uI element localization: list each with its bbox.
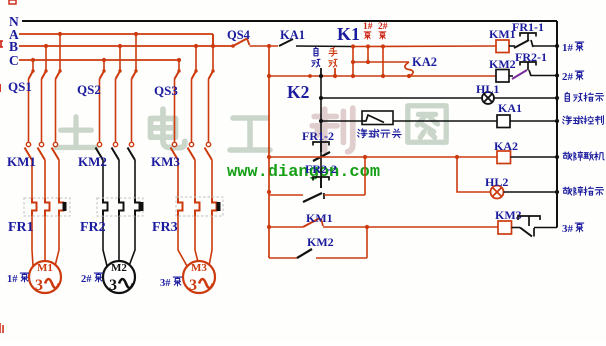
wire QS1 pole1 feeder bbox=[31, 58, 35, 62]
contactor KM3 main pole1 bbox=[172, 142, 176, 146]
wire FR3 to motor pole2 bbox=[195, 216, 199, 266]
svg-text:QS2: QS2 bbox=[77, 82, 101, 97]
wire QS2 to KM2 pole3 bbox=[131, 79, 133, 142]
svg-text:M2: M2 bbox=[111, 262, 127, 274]
wire KM3 to FR3 pole1 bbox=[177, 160, 179, 198]
contactor KM1 main pole3 bbox=[53, 142, 57, 146]
wire auto indicator row bbox=[321, 97, 482, 99]
red mark left mid bbox=[0, 84, 1, 92]
wire FR2-1 to bus bbox=[531, 75, 557, 77]
disconnect switch QS2 pole1 bbox=[102, 69, 105, 72]
junction bus fault interlock bbox=[555, 155, 559, 159]
label auto indicator bbox=[565, 92, 569, 101]
wire QS1 to KM1 pole2 bbox=[41, 79, 43, 142]
thermal contact FR1-1 NC bbox=[520, 33, 536, 37]
wire QS3 to KM3 pole3 bbox=[208, 79, 210, 142]
FR2 trip bar bbox=[140, 202, 144, 211]
contactor KM3 main pole2 bbox=[189, 142, 193, 146]
junction bus 1# pump bbox=[555, 44, 559, 48]
svg-text:K1: K1 bbox=[337, 24, 360, 44]
svg-text:FR1-1: FR1-1 bbox=[512, 20, 544, 34]
thermal relay FR3 heater pole1 bbox=[178, 198, 183, 216]
junction feed KA2 row bbox=[267, 155, 271, 159]
svg-text:KM3: KM3 bbox=[151, 154, 180, 169]
junction bus 2# pump bbox=[555, 73, 559, 77]
svg-text:KM2: KM2 bbox=[489, 57, 516, 71]
svg-text:B: B bbox=[9, 39, 18, 54]
wire QS1 pole2 feeder bbox=[44, 44, 48, 48]
wire KM1 to FR1 pole3 bbox=[58, 160, 60, 198]
coil KM3 bbox=[498, 221, 512, 234]
svg-text:KA2: KA2 bbox=[412, 55, 437, 69]
FR1 trip bar bbox=[63, 202, 67, 211]
svg-text:FR2-1: FR2-1 bbox=[515, 50, 547, 64]
wire KM1 aux to KM3 coil bbox=[323, 226, 498, 228]
wire common rail to KM2 coil bbox=[269, 75, 496, 77]
wire K1 2# stub bbox=[382, 47, 384, 77]
coil KM2 bbox=[496, 70, 509, 83]
junction feed KM1 aux bbox=[267, 225, 271, 229]
svg-text:1#: 1# bbox=[7, 274, 18, 285]
wire FR1-1 to bus bbox=[533, 45, 557, 47]
wire QS2 to KM2 pole1 bbox=[99, 79, 101, 142]
junction HL2 tap bbox=[455, 155, 459, 159]
svg-text:QS3: QS3 bbox=[154, 83, 178, 98]
bus B bbox=[19, 45, 233, 47]
bus N bbox=[22, 20, 557, 22]
thermal relay FR1 box bbox=[24, 198, 70, 216]
svg-text:QS1: QS1 bbox=[8, 79, 32, 94]
wire NC contact to bus bbox=[534, 227, 557, 229]
svg-text:KM1: KM1 bbox=[7, 154, 36, 169]
wire control feed vertical bbox=[268, 46, 270, 258]
junction riser KA2 row bbox=[363, 155, 367, 159]
junction feed rail bbox=[267, 74, 271, 78]
contact FR2-2 blade bbox=[303, 193, 322, 202]
svg-text:1#: 1# bbox=[363, 22, 373, 32]
watermark char gong bbox=[230, 118, 270, 150]
thermal contact FR1-2 NC bbox=[313, 142, 329, 146]
wire KM2 to FR2 pole3 bbox=[134, 160, 136, 198]
svg-text:KM2: KM2 bbox=[78, 154, 107, 169]
red mark left edge bbox=[0, 41, 3, 47]
wire FR1 to motor pole1 bbox=[32, 216, 33, 266]
svg-text:2#: 2# bbox=[378, 22, 388, 32]
wire KM3 to FR3 pole2 bbox=[194, 160, 196, 198]
wire FR2 to motor pole2 bbox=[118, 216, 120, 266]
wire riser to KA2 row bbox=[364, 157, 366, 195]
svg-text:KM2: KM2 bbox=[307, 235, 334, 249]
red mark left bottom bbox=[0, 323, 3, 333]
wire A drop to QS3 bbox=[212, 34, 214, 47]
svg-text:3: 3 bbox=[35, 277, 43, 294]
wire float switch to KA1 coil bbox=[393, 120, 497, 122]
FR3 trip bar bbox=[217, 202, 221, 211]
wire QS2 pole2 feeder bbox=[118, 44, 122, 48]
lamp HL1 bbox=[482, 92, 494, 104]
contactor KM2 main pole2 bbox=[113, 142, 117, 146]
lamp HL2 bbox=[491, 186, 504, 199]
disconnect switch QS3 pole1 bbox=[177, 69, 180, 72]
thermal relay FR1 heater pole2 bbox=[45, 198, 50, 216]
disconnect switch QS1 pole3 bbox=[58, 69, 61, 72]
junction feed fault row bbox=[267, 190, 271, 194]
thermal relay FR2 heater pole2 bbox=[119, 198, 124, 216]
disconnect switch QS3 pole3 bbox=[211, 69, 214, 72]
contactor KM3 main pole3 bbox=[206, 142, 210, 146]
thermal relay FR1 heater pole1 bbox=[32, 198, 37, 216]
relay contact KA2 bbox=[405, 62, 413, 76]
thermal relay FR2 heater pole3 bbox=[135, 198, 140, 216]
wire QS4 to KA1 bbox=[250, 45, 279, 47]
contactor KM1 main pole2 bbox=[39, 142, 43, 146]
svg-text:KM1: KM1 bbox=[306, 211, 333, 225]
bus A bbox=[19, 33, 213, 35]
svg-text:1#: 1# bbox=[562, 42, 574, 54]
wire KM3 coil to NC contact bbox=[512, 227, 521, 229]
relay contact KA1 NO bbox=[279, 39, 293, 46]
wire HL2 to bus bbox=[504, 191, 558, 193]
wire QS1 to KM1 pole1 bbox=[28, 79, 30, 142]
wire K1 rail to KA2 contact bbox=[353, 61, 409, 63]
wire QS3 pole1 feeder bbox=[177, 58, 181, 62]
svg-text:FR1-2: FR1-2 bbox=[302, 129, 334, 143]
svg-text:QS4: QS4 bbox=[227, 28, 251, 42]
wire KA2 coil row bbox=[269, 156, 497, 158]
junction K1 feed bbox=[351, 44, 355, 48]
wire QS3 pole3 feeder bbox=[212, 34, 214, 71]
wire KA1 to K1 bbox=[296, 45, 353, 48]
wire FR1 to motor pole2 bbox=[44, 216, 46, 266]
svg-text:KA1: KA1 bbox=[498, 101, 522, 115]
wire KM3 to FR3 pole3 bbox=[211, 160, 213, 198]
label fault interlock bbox=[563, 152, 572, 160]
coil KA2 bbox=[497, 151, 511, 164]
svg-text:3#: 3# bbox=[160, 278, 171, 289]
wire KM2 to FR2 pole1 bbox=[102, 160, 104, 198]
label float switch bbox=[358, 129, 367, 138]
label auto bbox=[314, 47, 318, 56]
thermal relay FR3 heater pole3 bbox=[212, 198, 217, 216]
junction float chain bbox=[319, 119, 323, 123]
svg-text:HL1: HL1 bbox=[476, 82, 499, 96]
coil KM1 bbox=[496, 40, 509, 53]
thermal relay FR3 box bbox=[176, 197, 223, 216]
thermal contact FR2-2 NC bbox=[313, 177, 329, 181]
svg-text:2#: 2# bbox=[562, 71, 574, 83]
coil KA1 bbox=[497, 115, 510, 128]
junction bus float control bbox=[555, 119, 559, 123]
contactor KM1 main pole1 bbox=[26, 142, 30, 146]
svg-text:3: 3 bbox=[109, 277, 117, 294]
wire HL2 feed bbox=[457, 157, 490, 192]
junction auto chain bbox=[319, 96, 323, 100]
wire K1 common stub bbox=[352, 47, 354, 77]
contactor NC contact after KM3 bbox=[518, 216, 540, 220]
contactor KM1 aux NO contact bbox=[303, 219, 319, 228]
wire HL1 to bus bbox=[494, 97, 557, 99]
junction control feed tap bbox=[267, 44, 271, 48]
svg-text:M3: M3 bbox=[191, 262, 207, 274]
watermark char dian bbox=[151, 109, 185, 147]
svg-text:www.diangon.com: www.diangon.com bbox=[227, 163, 380, 182]
wire QS3 pole2 feeder bbox=[194, 44, 198, 48]
svg-text:2#: 2# bbox=[81, 274, 92, 285]
svg-text:3: 3 bbox=[189, 277, 197, 294]
float switch contact bbox=[362, 115, 384, 123]
wire QS2 pole1 feeder bbox=[102, 58, 106, 62]
contactor KM2 aux NO contact bbox=[297, 249, 312, 258]
watermark char zhi bbox=[312, 108, 353, 152]
svg-text:HL2: HL2 bbox=[485, 175, 508, 189]
thermal relay FR2 heater pole1 bbox=[103, 198, 108, 216]
contactor KM2 main pole3 bbox=[129, 142, 133, 146]
junction KM2 aux riser bbox=[365, 225, 369, 229]
disconnect switch QS1 pole1 bbox=[31, 69, 34, 72]
watermark char tu bbox=[56, 117, 96, 148]
wire QS3 to KM3 pole2 bbox=[191, 79, 193, 142]
wire fault row left bbox=[269, 194, 303, 196]
wire right return bus bbox=[556, 21, 558, 228]
wire KA1 coil to bus bbox=[510, 120, 557, 122]
motor M2 2# pump bbox=[103, 261, 135, 294]
contactor KM2 main pole1 bbox=[97, 142, 101, 146]
motor M3 3# pump bbox=[183, 261, 215, 294]
thermal relay FR2 box bbox=[97, 198, 143, 216]
selector K2 manual contact bbox=[334, 68, 336, 76]
wire interlock chain bbox=[320, 76, 322, 188]
svg-text:FR1: FR1 bbox=[8, 220, 34, 235]
wire FR2 to motor pole3 bbox=[129, 216, 135, 266]
wire FR1 to motor pole3 bbox=[55, 216, 59, 266]
junction A drop crosses bus B bbox=[211, 44, 215, 48]
bus C bbox=[19, 59, 179, 61]
wire QS2 to KM2 pole2 bbox=[115, 79, 117, 142]
label fault indicator bbox=[563, 187, 572, 195]
wire QS1 pole3 feeder bbox=[58, 32, 62, 36]
svg-text:KA2: KA2 bbox=[494, 139, 518, 153]
wire KM1 aux row left bbox=[269, 226, 303, 228]
wire KA2 coil to bus bbox=[511, 156, 558, 158]
wire K1 row to KM1 coil bbox=[353, 45, 496, 48]
wire fault row to riser bbox=[324, 194, 365, 196]
junction bus fault indicator bbox=[555, 190, 559, 194]
wire K1 1# stub bbox=[367, 47, 369, 63]
svg-text:KA1: KA1 bbox=[280, 28, 305, 42]
wire KM1 coil to FR1-1 bbox=[509, 45, 515, 47]
svg-text:FR3: FR3 bbox=[152, 220, 178, 235]
wire KM2 aux row left bbox=[269, 257, 297, 259]
motor M1 1# pump bbox=[29, 261, 61, 294]
wire QS1 to KM1 pole3 bbox=[55, 79, 57, 142]
thermal contact FR2-1 NC bbox=[520, 62, 536, 66]
wire KM1 to FR1 pole2 bbox=[44, 160, 46, 198]
thermal relay FR3 heater pole2 bbox=[195, 198, 200, 216]
wire KM2 to FR2 pole2 bbox=[118, 160, 120, 198]
wire KM2 coil to FR2-1 bbox=[509, 75, 513, 77]
wire FR3 to motor pole1 bbox=[178, 216, 187, 266]
disconnect switch QS1 pole2 bbox=[44, 69, 47, 72]
svg-text:M1: M1 bbox=[37, 262, 53, 274]
svg-text:C: C bbox=[9, 53, 19, 68]
svg-text:FR2: FR2 bbox=[80, 220, 106, 235]
wire KM2 aux riser bbox=[366, 227, 368, 258]
selector K2 auto contact bbox=[320, 68, 322, 76]
disconnect switch QS4 bbox=[231, 44, 235, 48]
float switch box bbox=[362, 111, 393, 125]
svg-text:3#: 3# bbox=[562, 223, 574, 235]
disconnect switch QS2 pole3 bbox=[134, 69, 137, 72]
svg-text:K2: K2 bbox=[287, 82, 309, 102]
watermark char tu2 bbox=[408, 106, 446, 142]
wire KM2 aux to riser bbox=[316, 257, 367, 259]
wire FR2 to motor pole1 bbox=[103, 216, 107, 266]
thermal relay FR1 heater pole3 bbox=[59, 198, 64, 216]
svg-text:FR2-2: FR2-2 bbox=[305, 162, 337, 176]
junction bus auto indicator bbox=[555, 96, 559, 100]
disconnect switch QS2 pole2 bbox=[118, 69, 121, 72]
label manual bbox=[329, 48, 337, 57]
wire FR3 to motor pole3 bbox=[209, 216, 212, 266]
wire QS2 pole3 feeder bbox=[134, 32, 138, 36]
wire QS3 to KM3 pole1 bbox=[174, 79, 176, 142]
label float control bbox=[563, 116, 572, 124]
wire KM1 to FR1 pole1 bbox=[31, 160, 33, 198]
disconnect switch QS3 pole2 bbox=[194, 69, 197, 72]
wire to float switch bbox=[321, 120, 362, 122]
red mark top-left bbox=[9, 0, 16, 4]
